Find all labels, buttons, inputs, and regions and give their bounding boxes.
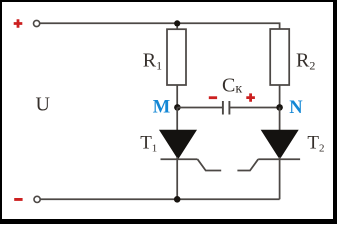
thyristor T2 cathode bar (258, 158, 300, 160)
thyristor T1 anode triangle (160, 130, 196, 158)
svg-text:U: U (36, 93, 51, 115)
capacitor Ck left lead (177, 107, 222, 109)
wire: node N to T2 anode (279, 107, 281, 131)
node M junction dot (174, 104, 181, 111)
wire: T1 cathode to negative rail (176, 157, 178, 199)
thyristor T1 gate lead (198, 159, 222, 170)
svg-text:N: N (289, 98, 303, 118)
wire: bottom (negative) rail (40, 198, 279, 200)
positive terminal circle (34, 20, 40, 26)
junction: T1 cathode / negative rail (174, 196, 181, 203)
node N junction dot (276, 104, 283, 111)
wire: R2 bottom lead to node N (279, 85, 281, 107)
negative supply terminal symbol - (14, 198, 22, 201)
negative terminal circle (34, 196, 40, 202)
capacitor polarity label + (red) (246, 93, 255, 101)
thyristor T1 cathode bar (161, 158, 198, 160)
wire: T2 cathode to negative rail (279, 157, 281, 199)
wire: R1 bottom lead to node M (176, 85, 178, 107)
wire: top rail from + terminal to R2 top (40, 23, 280, 29)
resistor R1 (167, 29, 186, 85)
junction: top rail / R1 (174, 20, 180, 26)
thyristor T2 anode triangle (262, 130, 298, 158)
capacitor Ck right lead to node N (229, 107, 279, 109)
thyristor T2 gate lead (237, 159, 258, 170)
wire: node M to T1 anode (176, 107, 178, 131)
svg-text:M: M (153, 98, 170, 118)
capacitor polarity label - (red) (209, 96, 217, 99)
resistor R2 (270, 29, 289, 85)
positive supply terminal symbol + (14, 19, 23, 28)
capacitor Ck plates (223, 101, 230, 115)
wire: R1 top lead (176, 23, 178, 29)
